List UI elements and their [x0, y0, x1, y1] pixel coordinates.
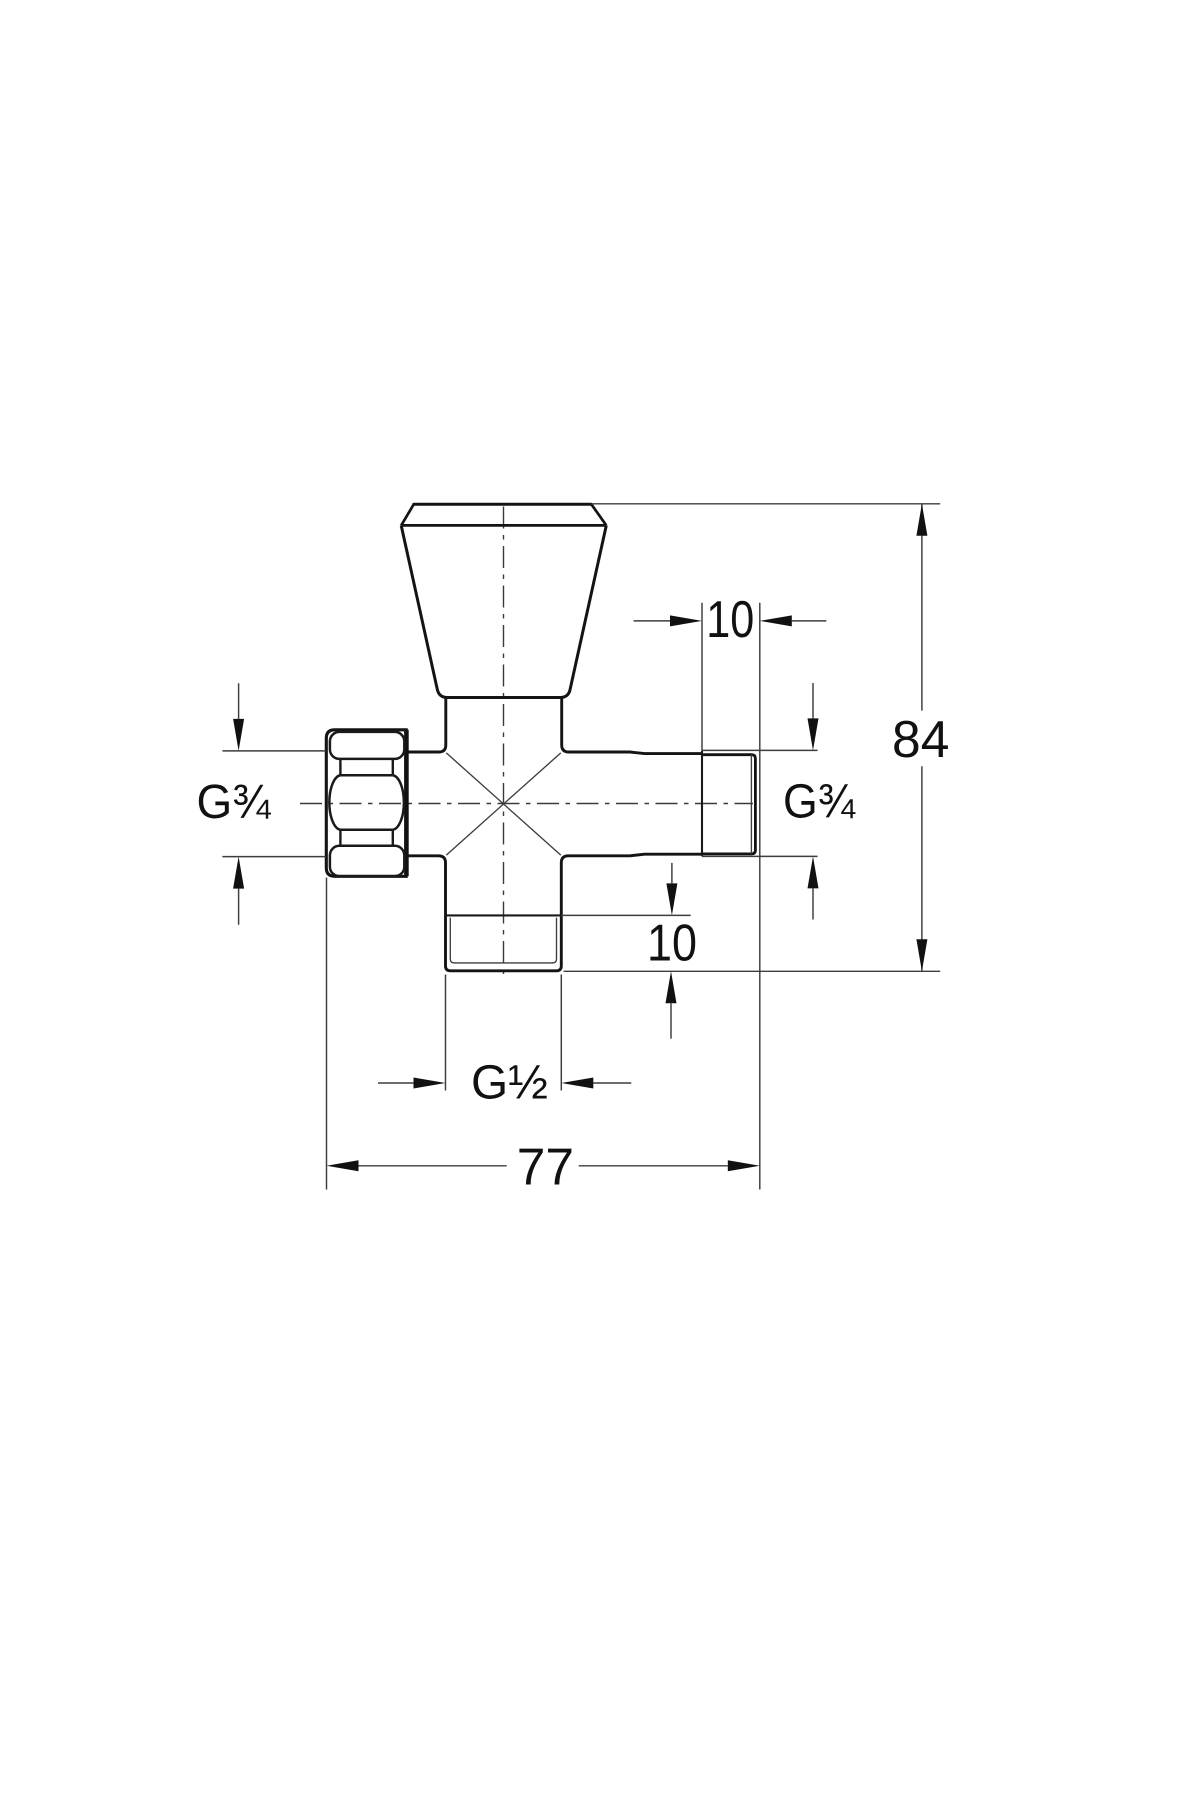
dim 10 bottom down arrow	[671, 863, 673, 884]
handle knob top face	[414, 503, 592, 506]
dim 84 arrow down	[916, 939, 927, 971]
dim 84 top extension line	[592, 503, 941, 505]
svg-text:77: 77	[517, 1137, 574, 1195]
dim 84 line	[921, 504, 923, 971]
right outlet thread crest	[702, 755, 755, 854]
nut top facet	[330, 732, 404, 759]
dim 10 top arrow right-pointing	[670, 615, 702, 626]
dim G1/2 right arrow	[593, 1082, 631, 1084]
dim 77 left extension	[326, 878, 328, 1190]
right outlet thread chamfer	[750, 755, 752, 854]
svg-text:G¾: G¾	[197, 775, 272, 829]
valve stem right and right arm top	[562, 698, 702, 754]
nut facet edges	[340, 759, 392, 846]
dim 77 line	[359, 1165, 728, 1167]
valve stem left	[407, 698, 446, 753]
horizontal centerline	[300, 803, 753, 805]
dim G1/2 extension lines	[446, 975, 562, 1091]
bottom outlet thread start extension	[561, 914, 690, 916]
right outlet thread start	[701, 751, 703, 857]
svg-text:G¾: G¾	[783, 775, 855, 829]
body lower outline: left arm bottom, bottom outlet, right arm bottom	[407, 854, 702, 971]
dim 10 top arrow left-pointing	[760, 615, 792, 626]
right outlet OD extension lines	[702, 750, 818, 856]
dim 10 top left extension	[701, 603, 703, 751]
dim 84 bottom extension line	[564, 970, 941, 972]
union nut G3/4 outline	[326, 730, 406, 877]
nut middle facet barrel	[340, 775, 392, 830]
dim G3/4 right up arrow	[812, 888, 814, 919]
dim G3/4 right down arrow	[812, 683, 814, 718]
dim G1/2 left arrow	[378, 1082, 414, 1084]
bottom outlet thread start	[446, 914, 562, 916]
vertical centerline	[503, 507, 505, 981]
svg-text:G½: G½	[471, 1055, 548, 1109]
dim 77 arrow left-pointing	[327, 1160, 359, 1171]
dim 10 top line right	[792, 620, 827, 622]
dim 77 arrow right-pointing	[728, 1160, 760, 1171]
dim G3/4 left extension lines	[222, 751, 326, 857]
nut bottom facet	[330, 846, 404, 876]
cross diagonals	[446, 753, 561, 855]
handle knob cone	[401, 525, 606, 697]
dim 10 top line left	[634, 620, 670, 622]
dim 10/77 right extension	[759, 603, 761, 1190]
bottom outlet thread inset	[450, 918, 556, 963]
nut right face	[404, 730, 409, 877]
svg-text:84: 84	[892, 710, 949, 768]
svg-text:10: 10	[706, 590, 754, 648]
dim 84 arrow up	[916, 504, 927, 536]
svg-text:10: 10	[647, 913, 697, 971]
dim 10 bottom up arrow	[670, 1003, 672, 1038]
dim G3/4 left down arrow	[238, 683, 240, 719]
dim G3/4 left up arrow	[238, 889, 240, 925]
